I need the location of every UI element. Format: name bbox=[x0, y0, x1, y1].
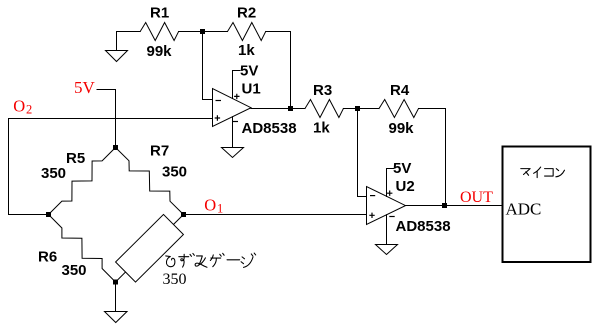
svg-text:R7: R7 bbox=[150, 143, 169, 160]
svg-text:5V: 5V bbox=[393, 160, 411, 177]
U2 positive supply plus bbox=[387, 191, 392, 196]
U2 inverting input minus bbox=[370, 195, 375, 197]
wire R4 to output node bbox=[419, 109, 446, 206]
U1 positive supply plus bbox=[234, 94, 239, 99]
op-amp U1 body bbox=[213, 89, 252, 127]
U2 5V pin bbox=[387, 169, 395, 197]
U1 non-inverting input plus bbox=[215, 115, 220, 120]
ground G2 (U1) bbox=[222, 148, 244, 158]
svg-text:R3: R3 bbox=[313, 82, 332, 99]
svg-text:ADC: ADC bbox=[506, 200, 542, 219]
wire left branch down bbox=[9, 119, 49, 215]
U1 inverting input minus bbox=[216, 100, 222, 102]
wire U1 output to R3 bbox=[251, 108, 305, 110]
svg-text:R4: R4 bbox=[390, 82, 410, 99]
resistor R5 bbox=[49, 148, 116, 215]
svg-text:OUT: OUT bbox=[460, 189, 493, 206]
zu bbox=[179, 253, 195, 267]
svg-text:AD8538: AD8538 bbox=[242, 120, 297, 137]
junction bridge top bbox=[113, 145, 118, 150]
svg-text:U2: U2 bbox=[396, 178, 415, 195]
junction bridge left bbox=[46, 212, 51, 217]
svg-text:R1: R1 bbox=[150, 5, 169, 22]
ji bbox=[241, 253, 256, 267]
U1 5V pin bbox=[233, 71, 241, 99]
svg-text:R2: R2 bbox=[237, 5, 256, 22]
junction bridge bottom bbox=[113, 280, 118, 285]
ground G4 (U2) bbox=[376, 245, 398, 255]
resistor R2 bbox=[228, 23, 266, 41]
U1 negative supply minus bbox=[233, 121, 239, 123]
wire U2 output to ADC bbox=[406, 205, 503, 207]
wire node A to R2 bbox=[203, 31, 228, 33]
junction node A (R1/R2) bbox=[200, 29, 205, 34]
wire R1 to node A bbox=[179, 31, 203, 33]
resistor R6 bbox=[49, 215, 116, 283]
svg-text:U1: U1 bbox=[242, 81, 261, 98]
wire node A to U1 inverting input bbox=[203, 32, 213, 100]
svg-text:5V: 5V bbox=[240, 63, 258, 80]
strain gauge body bbox=[116, 214, 184, 282]
ge bbox=[210, 253, 224, 266]
ko bbox=[545, 169, 554, 176]
svg-text:350: 350 bbox=[163, 271, 187, 288]
wire ground to R1 bbox=[117, 31, 141, 33]
junction U1 output node bbox=[288, 106, 293, 111]
svg-text:1k: 1k bbox=[238, 42, 255, 59]
svg-text:R5: R5 bbox=[66, 150, 85, 167]
resistor R4 bbox=[379, 100, 419, 118]
i bbox=[534, 167, 541, 178]
label hizumi gauge (Japanese) bbox=[166, 253, 256, 267]
mi bbox=[195, 256, 207, 267]
junction node B (R3/R4) bbox=[355, 106, 360, 111]
svg-text:350: 350 bbox=[62, 262, 87, 279]
svg-text:99k: 99k bbox=[147, 43, 173, 60]
svg-text:1k: 1k bbox=[313, 120, 330, 137]
U2 negative supply minus bbox=[389, 216, 394, 218]
wire O1 net to U2 non-inverting input bbox=[184, 214, 367, 216]
microcontroller box bbox=[503, 147, 591, 263]
junction bridge right bbox=[181, 212, 186, 217]
svg-text:R6: R6 bbox=[38, 249, 57, 266]
ground G1 (top left) bbox=[106, 32, 128, 62]
wire 5V rail to bridge top bbox=[97, 90, 116, 148]
resistor R7 bbox=[116, 148, 184, 215]
U2 non-inverting input plus bbox=[369, 213, 374, 218]
svg-text:350: 350 bbox=[41, 165, 66, 182]
wire bridge bottom to ground bbox=[115, 282, 117, 312]
svg-text:350: 350 bbox=[162, 164, 187, 181]
U1 ground pin bbox=[232, 117, 234, 148]
n bbox=[556, 169, 565, 177]
svg-text:99k: 99k bbox=[389, 120, 415, 137]
svg-text:AD8538: AD8538 bbox=[396, 218, 451, 235]
wire R3 to node B bbox=[343, 108, 379, 110]
strain gauge lead bbox=[116, 215, 184, 283]
op-amp U2 body bbox=[367, 187, 406, 225]
hi bbox=[166, 256, 175, 267]
U2 ground pin bbox=[386, 215, 388, 245]
wire node B to U2 inverting input bbox=[358, 109, 367, 197]
resistor R1 bbox=[140, 23, 178, 41]
svg-text:5V: 5V bbox=[74, 78, 96, 97]
wire R2 to U1 output node bbox=[266, 32, 291, 109]
wire O2 net to U1 non-inverting input bbox=[9, 118, 213, 120]
long dash bbox=[227, 259, 240, 261]
resistor R3 bbox=[305, 100, 343, 118]
ground G3 (bridge) bbox=[105, 312, 128, 323]
junction OUT node bbox=[442, 203, 447, 208]
label microcontroller (Japanese) bbox=[521, 167, 565, 178]
ma bbox=[521, 169, 530, 176]
